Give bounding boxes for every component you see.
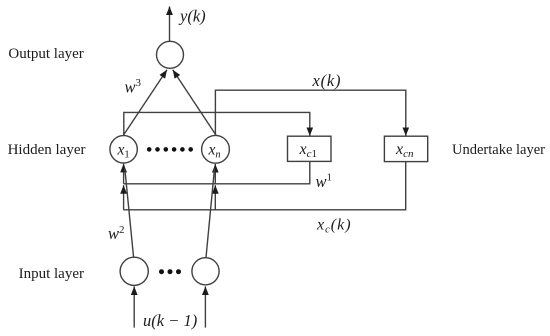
svg-text:w1: w1 — [316, 171, 333, 190]
node input circle 1 — [120, 257, 148, 285]
wire xn to output — [173, 70, 216, 136]
wire riser under x1 lower — [123, 185, 125, 210]
node x1 hidden circle — [110, 136, 137, 163]
node input circle 2 — [192, 258, 219, 285]
svg-text:w3: w3 — [125, 77, 142, 96]
svg-text:Undertake layer: Undertake layer — [452, 142, 545, 158]
dots between hidden neurons — [147, 147, 193, 152]
rect xc1 context box — [288, 136, 332, 161]
svg-text:x1: x1 — [117, 142, 130, 161]
wire riser under xn upper — [214, 164, 216, 184]
wire riser under x1 upper — [123, 164, 125, 184]
node xn hidden circle — [202, 135, 230, 163]
svg-text:Output layer: Output layer — [8, 46, 83, 62]
wire input1 to x1 — [125, 169, 134, 258]
wire x1 to output — [123, 70, 167, 136]
svg-text:u(k − 1): u(k − 1) — [143, 311, 197, 330]
svg-text:Input layer: Input layer — [19, 266, 84, 282]
wire xn top to xcn box (x(k)) — [215, 90, 405, 136]
wire xcn bottom feedback xc(k) — [124, 162, 406, 210]
svg-text:Hidden layer: Hidden layer — [8, 142, 86, 158]
wire xc1 bottom feedback w1 — [124, 162, 310, 184]
wire input2 to xn — [206, 169, 215, 258]
svg-text:x(k): x(k) — [312, 71, 342, 90]
svg-text:xn: xn — [208, 142, 221, 161]
wire riser under xn lower — [214, 185, 216, 210]
wire u(k-1) arrow into input1 — [133, 286, 135, 327]
svg-text:w2: w2 — [108, 224, 125, 243]
wire output arrow y(k) — [169, 6, 171, 41]
svg-text:xcn: xcn — [395, 141, 414, 160]
rect xcn context box — [384, 136, 427, 161]
dots between input neurons — [159, 269, 181, 274]
svg-text:y(k): y(k) — [178, 6, 206, 25]
svg-text:xc(k): xc(k) — [316, 217, 352, 236]
wire u(k-1) arrow into input2 — [204, 286, 206, 327]
wire x1 top to xc1 box — [124, 112, 310, 135]
op neuron output circle — [157, 41, 184, 68]
svg-text:xc1: xc1 — [299, 141, 318, 160]
